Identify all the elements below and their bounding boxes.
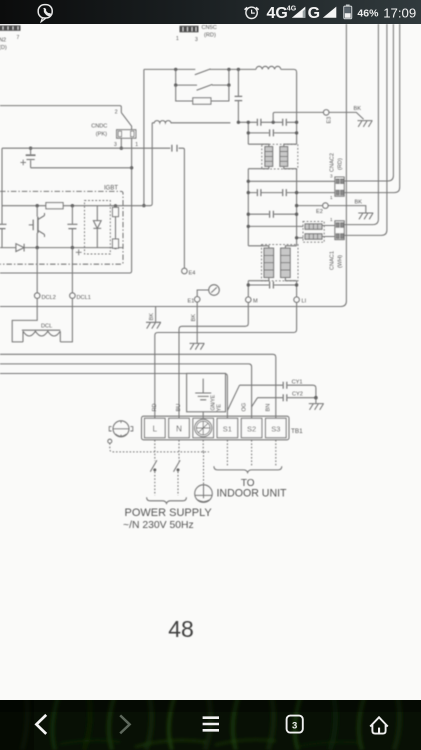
inductor L1 [256,66,281,69]
node: rail junctions y205.7 [36,204,118,207]
terminal S2 [241,418,262,437]
wire: S2 line [0,364,252,418]
inductor DCL body [22,330,60,342]
connector CN5C (RD) [180,26,199,33]
terminal E2 [323,203,329,209]
dotted drops S1 S2 S3 [227,440,275,466]
wire: left DC bus x2 [1,148,3,247]
wire: DCL2 drop [36,248,38,293]
terminal S1 [217,418,238,437]
svg-text:3: 3 [195,37,198,43]
connector CNDC (PK) [117,130,136,139]
dotted drop N with switch [178,440,179,496]
node: row y192.6 [247,191,299,194]
chassis ground G1 [146,322,161,328]
alarm clock icon [245,7,259,18]
svg-text:CY1: CY1 [292,380,303,386]
navbar grass background [0,700,421,750]
svg-text:BK: BK [354,106,362,112]
label POWER SUPPLY [123,507,212,531]
chassis ground G2 [190,343,205,349]
svg-text:M: M [253,299,258,305]
sim2 signal triangle [323,7,337,18]
wire: cap row y214.2 [248,213,296,215]
svg-text:BN: BN [265,404,271,412]
transformer T2 windings [264,248,290,277]
transformer T1 windings [265,147,288,167]
capacitor C9 [270,129,274,136]
wire: CNDC pin diagonal [121,113,131,130]
svg-text:IGBT: IGBT [104,186,118,192]
capacitor C5 (left edge) [0,224,7,228]
terminal S3 [266,418,287,437]
node: pin1/cap rail junction [29,147,133,170]
svg-text:3: 3 [330,174,333,179]
diode D2 (in sub-box) [93,206,101,248]
svg-text:N: N [176,425,182,434]
label CN5C (RD) [176,25,217,43]
svg-text:(PK): (PK) [96,132,107,138]
node: rail junctions y247.6 [36,246,118,249]
svg-text:~/N 230V 50Hz: ~/N 230V 50Hz [123,520,194,531]
svg-text:CNAC2: CNAC2 [330,153,336,172]
wire: IGBT lower rail y247.6 [0,247,123,249]
svg-text:48: 48 [168,616,194,642]
indoor unit brace [214,466,282,472]
connector CNAC2 (RD) [335,177,344,196]
capacitor CY2 [283,394,287,401]
relay contact 52C-a [195,69,211,75]
wire: CNDC pin3 to DC rail [120,138,122,148]
connector CNAC1 (WH) [335,221,344,240]
capacitor C10 [257,189,261,196]
resistor R1 (inrush) [193,98,211,104]
svg-text:BK: BK [355,200,363,206]
node: row y214.2 [247,213,299,216]
wire: E1 ground drop [196,307,198,344]
svg-text:BK: BK [149,313,155,321]
svg-text:1: 1 [135,142,138,148]
earth lead box [187,373,226,411]
IGBT module outline (dash-dot) [0,191,123,264]
node [295,236,298,239]
svg-text:S2: S2 [247,425,256,434]
earth screw symbol (field) [195,485,213,503]
wire: FL2 to CNAC1 [322,226,335,237]
sim1 signal triangle [292,7,306,18]
svg-text:LI: LI [302,299,307,305]
capacitor C11 [283,189,287,196]
capacitor C3 (snubber on relay drop) [235,69,243,122]
battery icon [344,5,352,19]
svg-text:INDOOR UNIT: INDOOR UNIT [216,488,287,500]
node: y181.3 [247,180,250,183]
resistor R2 [46,203,63,209]
plus mark [76,249,82,255]
wire: earth terminal dotted drop [202,440,204,452]
svg-text:DCL2: DCL2 [42,295,56,301]
tabs icon with count 3 [287,716,303,733]
chassis ground G5 [309,404,324,410]
svg-text:CNDC: CNDC [91,123,107,129]
terminal DCL2 [34,293,40,299]
wire: LI to terminal L [155,307,297,419]
wire: choke feed y226.4 [248,225,303,227]
transformer T1 box (dashed) [262,144,298,169]
wire: CNAC2 feed row y181.3 [248,180,335,182]
wire: C1 bottom rail y168 [31,167,132,169]
capacitor C1 (electrolytic +) [20,148,35,168]
transformer T2 box (dashed) [262,245,299,281]
forward chevron (disabled) [120,715,129,733]
wire: cap row y122.3 [238,121,296,123]
svg-text:OG: OG [241,403,247,412]
svg-text:1: 1 [330,195,333,200]
capacitor C4 (film, on DC rail) [172,145,177,152]
wire: T1 lead jogs [248,144,296,169]
wire: cap row y285 [248,284,296,286]
svg-text:46%: 46% [357,7,379,19]
resistor R4 [113,239,119,248]
grounding screw (left of TB1) [109,421,133,437]
wire: S1 tap diagonal to CY1 [227,385,239,410]
wire: L1 to filter right bus [281,69,297,122]
svg-text:3: 3 [292,720,297,731]
menu icon [203,718,219,731]
resistor R3 [113,206,119,248]
connector CNW2 (top-left, cut off) [0,25,21,30]
node: switch pivots [153,468,179,471]
status bar background [0,0,421,24]
wire: contact row 2 [176,69,229,85]
wire: resistor loop [176,85,229,101]
svg-text:L: L [153,425,158,434]
capacitor C6 [67,206,77,248]
wire: top-left rail to CNDC [0,106,121,113]
terminal M [246,297,252,307]
terminal L [145,418,166,437]
node: row y122.3 junctions [237,121,299,124]
node: drops on IGBT out [142,204,145,207]
svg-text:(RD): (RD) [338,158,344,170]
svg-text:S3: S3 [271,425,280,434]
power supply brace [147,497,187,503]
notification icon: messenger call bubble [38,5,52,22]
svg-text:(WH): (WH) [338,255,344,268]
wire: DC(+) rail y148 [2,148,184,268]
terminal DCL1 [70,293,76,299]
wire: CY ground stub [315,398,317,404]
svg-text:E1: E1 [188,298,195,304]
dotted drop L with switch [154,440,156,496]
capacitor C7 [257,119,261,126]
diode D1 [16,244,24,252]
label CNAC2 (RD) rotated [330,153,344,200]
svg-text:CY2: CY2 [292,391,303,397]
earth symbol (in box) [195,379,211,400]
wire: riser to E3 line [273,112,323,122]
wire: DCL1 drop [71,248,73,293]
wire: E3 line to ground stub [329,112,364,119]
home icon [370,717,388,733]
wire: relay top rail [144,68,256,70]
wire: cap row y132.9 [248,132,296,134]
svg-text:S1: S1 [223,425,232,434]
node: E2 line tap [295,204,298,207]
wire: CNDC pin1 down to board edge [0,138,132,273]
svg-text:(D): (D) [0,45,7,51]
capacitor CY1 [283,382,287,389]
capacitor C8 [283,119,287,126]
fuse F1 (circle) [197,285,219,297]
svg-text:1: 1 [176,36,179,42]
svg-text:BU: BU [176,404,182,412]
diode module sub-box (dotted) [85,201,111,255]
svg-text:2: 2 [115,110,118,116]
terminal LI [294,297,300,307]
node: row y132.9 [247,131,299,134]
terminal earth [193,418,214,437]
svg-text:RD: RD [152,403,158,411]
wire: relay rail drop x144 [143,69,145,205]
svg-text:3: 3 [114,142,117,148]
wire: CNAC1 right risers [344,24,387,235]
choke FL2 windings [305,224,322,239]
chassis ground G4 [358,213,373,219]
dotted earth link [110,443,209,484]
terminal E1 [194,297,200,307]
node: rail junctions [174,68,240,71]
wire: filter right bus [296,122,298,297]
screw pigtail [108,439,112,443]
label CNAC1 (WH) rotated [330,217,344,270]
svg-text:4G: 4G [267,5,288,22]
capacitor C13 [270,282,274,289]
main board edge: bottom rail and right edge [0,24,346,307]
choke FL2 (dashed box) [303,221,324,242]
capacitor C12 [270,211,274,218]
wire colour labels (rotated) [152,394,271,411]
wire: cap row y192.6 (continues to right riser) [248,24,399,193]
svg-text:CN5C: CN5C [202,25,217,31]
node: row2 junctions [174,83,231,86]
wire: T2 lead jogs [248,246,296,281]
wire: CY2 line [258,397,316,399]
svg-text:1: 1 [330,217,333,222]
svg-text:E3: E3 [327,117,333,124]
wire: CNAC2 right riser [344,24,393,181]
label CNDC (PK) [91,123,138,148]
svg-text:(RD): (RD) [204,32,216,38]
wire: CY1 line [240,385,316,398]
switch blade L [150,460,157,472]
svg-text:G: G [308,5,320,22]
wire: filter left bus [247,122,249,297]
node [247,225,250,228]
wire: ground drop from main rail [155,307,157,322]
wire: choke feed y237.8 [297,237,304,239]
node: CY junction [314,396,318,400]
back chevron [36,715,46,734]
svg-text:TB1: TB1 [291,428,303,435]
terminal N [169,418,190,437]
svg-text:DCL1: DCL1 [77,295,91,301]
svg-text:BK: BK [191,314,197,322]
svg-text:YE: YE [216,404,222,412]
svg-text:17:09: 17:09 [383,5,416,20]
terminal E4 [182,268,188,274]
wire: S2 tap diagonal to CY2 [252,398,258,407]
svg-text:DCL: DCL [41,324,52,330]
transistor Q1 (IGBT) [29,206,45,248]
choke FL1 [152,121,230,123]
terminal block TB1 outline [142,416,290,440]
wire: S1 line [0,374,227,419]
wire: FL1 drop to IGBT out [150,123,152,206]
svg-text:POWER SUPPLY: POWER SUPPLY [125,507,213,519]
inductor DCL leads [12,298,72,342]
chassis ground G3 [358,121,373,127]
node: row y285 [247,283,299,286]
switch blade N [174,460,181,472]
wire: IGBT output rail y205.7 [2,205,151,207]
terminal E3 [323,110,329,116]
svg-text:7: 7 [17,35,20,41]
relay contact 52C-b [197,84,213,90]
wire: S3 line [0,354,276,418]
svg-text:CNAC1: CNAC1 [330,251,336,270]
label TO INDOOR UNIT [216,478,287,500]
wire: M to terminal N [179,307,248,419]
svg-text:4G: 4G [287,6,297,13]
svg-text:N2: N2 [0,38,6,44]
wire: earth to terminal [202,412,204,419]
wire: E2 line y205.6 [297,206,366,213]
svg-text:E4: E4 [189,271,196,277]
svg-text:E2: E2 [316,209,323,215]
label CNW2 text [0,35,20,51]
